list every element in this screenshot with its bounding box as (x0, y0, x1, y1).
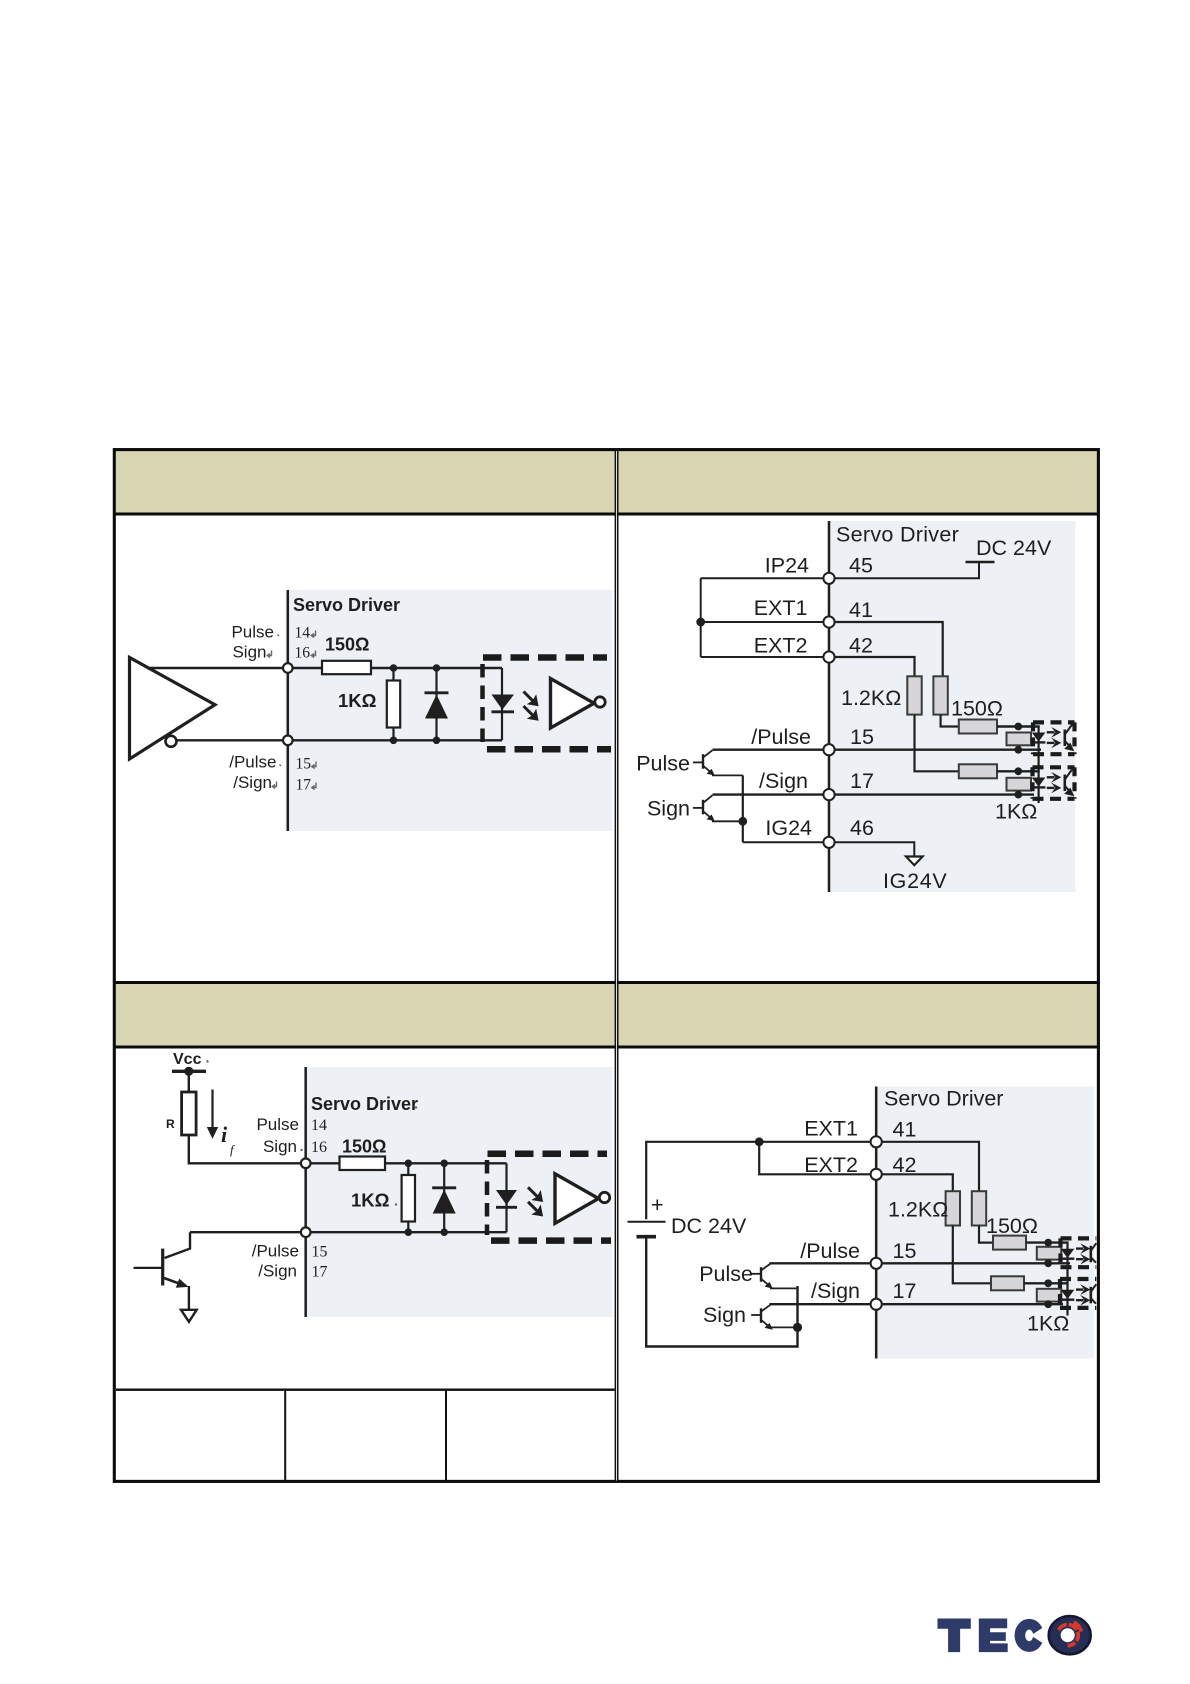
CELL-TR (636, 521, 1075, 893)
wire /Pulse rail (769, 1262, 1070, 1264)
opto1 light arrows (1047, 727, 1062, 748)
wire pin42 right (829, 657, 915, 676)
svg-text:f: f (230, 1142, 236, 1157)
svg-text:IG24: IG24 (765, 816, 812, 840)
servo driver shaded region (875, 1087, 1095, 1359)
svg-text:1KΩ: 1KΩ (1027, 1312, 1069, 1336)
servo driver boundary line (875, 1087, 878, 1359)
svg-text:150Ω: 150Ω (951, 697, 1003, 721)
svg-text:/Pulse: /Pulse (751, 725, 811, 749)
svg-text:46: 46 (850, 816, 874, 840)
CELL-BR (628, 1087, 1097, 1359)
wire bottom (/Pulse) (177, 739, 502, 741)
diode D1 (425, 668, 449, 740)
ground (181, 1310, 197, 1322)
servo driver shaded region (828, 521, 1076, 892)
wire /Sign rail (769, 1303, 1063, 1305)
resistor 1.2K (left) (907, 676, 921, 714)
O white hub (1061, 1628, 1075, 1642)
svg-text:16: 16 (295, 645, 311, 662)
svg-text:DC 24V: DC 24V (976, 536, 1052, 560)
svg-text:150Ω: 150Ω (342, 1137, 386, 1157)
transistor Sign (751, 1305, 797, 1330)
O red swirl (1059, 1622, 1082, 1645)
svg-text:Servo Driver: Servo Driver (836, 523, 959, 547)
svg-text:+: + (651, 1193, 664, 1217)
pin circle 46 (823, 837, 834, 848)
resistor 150 ohm (340, 1157, 386, 1171)
junction dots (390, 664, 441, 744)
wire IP24 left (701, 577, 829, 579)
opto2 dashed box (1033, 767, 1075, 799)
wire R2 to 150ohm resistor (941, 715, 959, 727)
wire pin41 right (829, 622, 943, 676)
transistor Q1 (134, 1232, 191, 1309)
svg-text:Sign: Sign (647, 797, 690, 821)
wire pin45 to DC24V (829, 563, 979, 578)
svg-text:/Pulse: /Pulse (800, 1239, 860, 1263)
wire top right of resistor (371, 667, 502, 669)
opto1 dashed box (1061, 1238, 1097, 1267)
opto1 LED (1032, 733, 1046, 743)
servo driver boundary line (304, 1067, 307, 1317)
pilcrow marks (267, 631, 316, 790)
resistor 1K (sign) (1007, 778, 1032, 791)
ground IG24V (906, 857, 923, 866)
opto2 phototransistor (1091, 1284, 1097, 1304)
wire 150-2 to opto2 (1024, 1282, 1069, 1284)
svg-text:EXT2: EXT2 (754, 634, 808, 658)
svg-text:15: 15 (850, 725, 874, 749)
resistor 1K (sign) (1037, 1289, 1062, 1302)
svg-text:Servo Driver: Servo Driver (884, 1087, 1003, 1111)
resistor 1K (pulse) (1037, 1247, 1062, 1260)
svg-text:15: 15 (312, 1244, 328, 1261)
svg-text:Sign: Sign (703, 1303, 746, 1327)
svg-text:15: 15 (296, 756, 312, 773)
transistor Pulse (693, 750, 743, 775)
opto inverter (555, 1174, 599, 1224)
wire R to node (189, 1135, 306, 1163)
junction dots (1044, 1239, 1052, 1308)
DC24V terminal bar (966, 561, 995, 564)
svg-text:Sign: Sign (263, 1137, 297, 1156)
optocoupler dashed box (487, 1154, 611, 1241)
svg-text:45: 45 (849, 554, 873, 578)
CELL-BL (134, 1051, 613, 1322)
svg-text:1KΩ: 1KΩ (995, 800, 1037, 824)
svg-text:/Sign: /Sign (759, 769, 808, 793)
svg-text:R: R (166, 1117, 175, 1131)
wire top rail right (385, 1162, 507, 1164)
resistor 150 (pulse) (959, 720, 997, 734)
svg-text:EXT1: EXT1 (754, 596, 808, 620)
resistor 1.2K left (946, 1191, 960, 1225)
wire /Pulse rail (713, 749, 1042, 751)
node circle 15/17 (301, 1227, 311, 1237)
pin circle 41 (871, 1136, 882, 1147)
transistor Sign (693, 795, 743, 821)
pin circle 45 (823, 573, 834, 584)
svg-text:i: i (221, 1122, 228, 1147)
opto1 dashed box (1033, 722, 1075, 754)
pin circle 15 (823, 744, 834, 755)
TABLE-FRAME (114, 450, 1100, 1482)
inverter output bubble (599, 1192, 609, 1202)
resistor 1K (pulse) (1007, 733, 1032, 746)
opto2 dashed box (1060, 1279, 1096, 1308)
svg-text:14: 14 (311, 1117, 327, 1134)
opto2 light arrows (1076, 1284, 1090, 1305)
junction dot emitter (793, 1323, 802, 1332)
opto LED (496, 1163, 517, 1232)
svg-text:1KΩ: 1KΩ (351, 1190, 390, 1211)
junction dot emitter (738, 817, 747, 826)
resistor R (182, 1092, 197, 1135)
resistor 150 (pulse) (993, 1236, 1026, 1250)
wire pin46 to ground (829, 842, 914, 856)
svg-text:17: 17 (893, 1279, 917, 1303)
svg-text:15: 15 (893, 1239, 917, 1263)
svg-text:17: 17 (296, 777, 312, 794)
TECO letter C (1020, 1624, 1048, 1646)
svg-text:/Pulse: /Pulse (252, 1242, 299, 1261)
resistor 1.2K (right) (933, 676, 947, 714)
artifact dots (206, 1060, 417, 1205)
transistor Pulse (751, 1264, 797, 1289)
opto1 light arrows (1076, 1243, 1090, 1264)
junction dots (405, 1160, 449, 1236)
svg-text:Sign: Sign (232, 643, 266, 662)
current arrow if (207, 1090, 218, 1139)
svg-text:/Sign: /Sign (811, 1279, 860, 1303)
inverter output bubble (595, 697, 605, 707)
svg-text:EXT2: EXT2 (804, 1153, 858, 1177)
node circle pin15/17 (283, 736, 293, 746)
wire IG24 (743, 841, 829, 843)
line driver U1 (130, 658, 216, 760)
opto2 phototransistor (1064, 769, 1074, 797)
svg-text:Servo Driver: Servo Driver (311, 1094, 418, 1114)
svg-text:150Ω: 150Ω (986, 1214, 1038, 1238)
svg-text:41: 41 (849, 598, 873, 622)
opto1 LED (1061, 1249, 1075, 1259)
light arrows (524, 692, 539, 721)
wire R1 to 150ohm-2 (915, 715, 959, 772)
svg-text:Pulse: Pulse (231, 622, 274, 641)
resistor 150 ohm (322, 661, 371, 674)
svg-text:17: 17 (312, 1264, 328, 1281)
svg-text:1.2KΩ: 1.2KΩ (888, 1198, 948, 1222)
node circle 14/16 (301, 1159, 311, 1169)
svg-text:42: 42 (849, 634, 873, 658)
opto2 light arrows (1047, 772, 1062, 793)
svg-text:IG24V: IG24V (883, 869, 947, 893)
inverting output bubble (166, 736, 177, 747)
pin circle 17 (823, 789, 834, 800)
svg-text:IP24: IP24 (765, 554, 809, 578)
resistor 1K ohm (387, 668, 400, 740)
wire top (Pulse) (147, 667, 322, 669)
opto2 LED (1032, 778, 1046, 788)
svg-text:150Ω: 150Ω (325, 635, 369, 655)
wire 150 to opto1 (997, 725, 1040, 727)
wire battery plus to EXT1 (646, 1142, 876, 1220)
pin circle 42 (871, 1169, 882, 1180)
Vcc terminal bar (172, 1070, 206, 1073)
Vcc junction dot (184, 1067, 193, 1076)
servo driver shaded region (286, 590, 613, 831)
svg-text:EXT1: EXT1 (804, 1117, 858, 1141)
wire EXT1 (701, 621, 829, 623)
wire pin41 right (876, 1142, 979, 1191)
resistor 1.2K right (972, 1191, 986, 1225)
svg-text:/Sign: /Sign (233, 773, 272, 792)
svg-text:14: 14 (295, 624, 311, 641)
svg-text:DC 24V: DC 24V (671, 1214, 747, 1238)
wire pin42 right (876, 1174, 953, 1191)
TECO letter O disc (1049, 1616, 1091, 1654)
diode D1 (432, 1163, 456, 1232)
opto LED (492, 668, 515, 740)
svg-text:1KΩ: 1KΩ (338, 690, 377, 711)
junction dot EXT1 (755, 1137, 764, 1146)
svg-text:16: 16 (311, 1139, 327, 1156)
servo driver boundary line (287, 590, 290, 831)
wire R2 to 150-1 (979, 1226, 993, 1243)
opto1 phototransistor (1091, 1243, 1097, 1263)
resistor 1K (402, 1163, 415, 1232)
emitter bus (742, 775, 744, 842)
svg-text:Pulse: Pulse (256, 1115, 299, 1134)
wire vertical left bus (700, 578, 702, 657)
wire R1 to 150-2 (953, 1226, 991, 1284)
LOGO (938, 1616, 1091, 1654)
node circle pin14/16 (283, 663, 293, 673)
wire /Sign rail (713, 793, 1035, 795)
junction dot EXT1 (696, 618, 705, 627)
pin circle 15 (871, 1258, 882, 1269)
servo driver boundary line (828, 521, 831, 892)
pin circle 42 (823, 651, 834, 662)
opto1 phototransistor (1064, 724, 1074, 752)
wire EXT2 (759, 1142, 876, 1175)
pin circle 17 (871, 1299, 882, 1310)
CELL-TL (130, 590, 613, 831)
light arrows (528, 1187, 543, 1216)
wire 150-1 to opto1 (1026, 1241, 1069, 1243)
TECO letter E (979, 1619, 1008, 1653)
opto inverter (551, 679, 595, 729)
servo driver shaded region (304, 1067, 613, 1317)
wire between node and resistor (306, 1162, 340, 1164)
svg-text:Servo Driver: Servo Driver (293, 595, 400, 615)
wire battery minus down (646, 1237, 797, 1347)
svg-text:17: 17 (850, 769, 874, 793)
svg-text:Pulse: Pulse (636, 752, 690, 776)
junction dots pulse (1014, 723, 1022, 799)
svg-text:Pulse: Pulse (699, 1262, 753, 1286)
svg-text:/Pulse: /Pulse (229, 753, 276, 772)
wire EXT2 (701, 656, 829, 658)
optocoupler dashed box (483, 658, 612, 750)
opto LED column (1066, 1243, 1068, 1316)
battery DC24V (628, 1193, 747, 1238)
svg-text:Vcc: Vcc (173, 1051, 202, 1068)
opto2 LED (1061, 1290, 1075, 1300)
svg-text:1.2KΩ: 1.2KΩ (841, 686, 901, 710)
TECO letter T (938, 1619, 971, 1653)
resistor 150 (sign) (959, 764, 997, 778)
pin circle 41 (823, 616, 834, 627)
wire 150-2 to opto2 (997, 770, 1040, 772)
svg-text:/Sign: /Sign (258, 1262, 297, 1281)
wire bottom rail (190, 1231, 507, 1233)
resistor 150 (sign) (991, 1276, 1024, 1290)
opto LED column (1037, 727, 1039, 804)
svg-text:41: 41 (893, 1118, 917, 1142)
wire Vcc to R (188, 1071, 190, 1092)
